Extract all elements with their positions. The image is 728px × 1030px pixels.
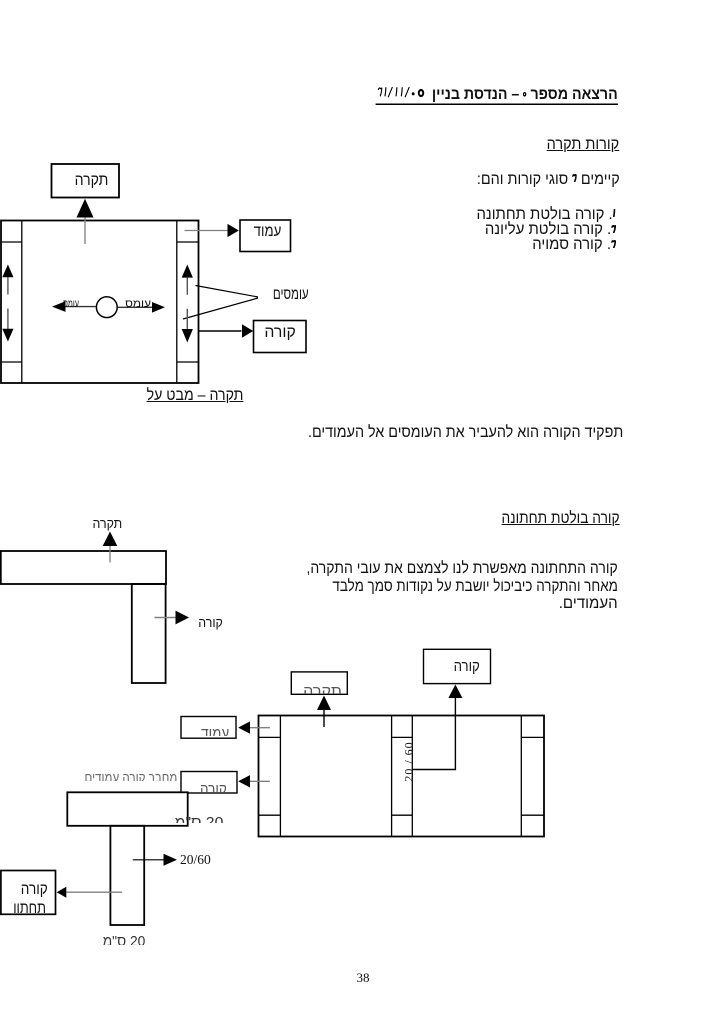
column callout arrow bbox=[250, 727, 270, 729]
right column strip line bbox=[176, 221, 178, 384]
size label arrow bbox=[133, 859, 164, 861]
right strip bottom crossbar bbox=[177, 361, 199, 363]
text omas1 bbox=[126, 298, 152, 311]
clipped text ctak bbox=[202, 673, 342, 694]
text p3 bbox=[559, 595, 618, 613]
plan middle strip line b bbox=[411, 716, 413, 837]
text pkora bbox=[453, 658, 479, 675]
clipped text csm1 bbox=[84, 812, 224, 823]
beam callout box 2 bbox=[181, 772, 237, 794]
plan middle strip line a bbox=[391, 716, 393, 837]
text btak bbox=[74, 172, 108, 190]
ceiling slab plan outline bbox=[1, 221, 199, 384]
text cap bbox=[146, 387, 243, 405]
arrow to column box bbox=[185, 230, 229, 232]
left strip bottom crossbar bbox=[1, 361, 22, 363]
clipped text cnote bbox=[37, 768, 177, 781]
text hdr bbox=[378, 86, 618, 104]
lower-beam section web bbox=[132, 584, 166, 683]
text bamud bbox=[253, 223, 281, 241]
beam callout bent arrow bbox=[412, 697, 455, 770]
column callout box bbox=[181, 717, 236, 739]
text p2 bbox=[332, 578, 617, 596]
right load arrow bbox=[118, 306, 153, 308]
loads pointer line upper bbox=[196, 286, 259, 298]
arrow to ceiling box bbox=[84, 217, 86, 244]
loads pointer line lower bbox=[183, 298, 258, 319]
load circle bbox=[96, 297, 117, 318]
text p1 bbox=[306, 560, 617, 578]
clipped text csm2 bbox=[6, 932, 146, 945]
text sz2060 bbox=[180, 852, 211, 868]
ceiling callout arrow bbox=[323, 710, 325, 727]
plan left strip line bbox=[279, 716, 281, 837]
text it3 bbox=[532, 236, 616, 254]
text it1 bbox=[476, 206, 615, 224]
text kt1 bbox=[20, 881, 47, 899]
arrow to beam label bbox=[155, 617, 177, 619]
right strip top crossbar bbox=[177, 241, 199, 243]
plan crossbars bottom bbox=[259, 814, 281, 816]
arrow from ceiling label bbox=[109, 546, 111, 563]
left slab double arrow bbox=[2, 265, 13, 278]
beam label box bbox=[254, 321, 307, 353]
lower-beam section slab bbox=[1, 551, 166, 584]
clipped text camud bbox=[89, 718, 229, 736]
left strip top crossbar bbox=[1, 241, 22, 243]
ceiling label box bbox=[52, 164, 120, 198]
rotated beam size label bbox=[403, 739, 416, 783]
header underline bbox=[376, 103, 618, 105]
right slab double arrow bbox=[182, 265, 193, 278]
T-section web bbox=[110, 826, 144, 925]
arrow to beam box bbox=[199, 330, 242, 332]
clipped text ktl2 bbox=[0, 900, 46, 913]
lower beam label arrow bbox=[66, 891, 122, 893]
bottom ceiling plan outline bbox=[259, 716, 545, 837]
text omas2 bbox=[64, 298, 80, 311]
beam callout arrow 2 bbox=[250, 780, 270, 782]
text pg bbox=[357, 971, 370, 986]
plan right strip line bbox=[520, 716, 522, 837]
text mid bbox=[308, 424, 623, 442]
lower beam label box bbox=[1, 871, 56, 915]
text bkora bbox=[264, 324, 295, 342]
text omasim bbox=[273, 286, 309, 304]
text ln1 bbox=[477, 171, 620, 189]
text h1 bbox=[546, 136, 619, 154]
text lkora bbox=[198, 616, 223, 631]
left column strip line bbox=[21, 221, 23, 384]
text it2 bbox=[485, 221, 616, 239]
ceiling callout box bbox=[291, 672, 347, 694]
text h2 bbox=[502, 510, 620, 528]
plan crossbars top bbox=[259, 736, 281, 738]
left load arrow bbox=[66, 306, 97, 308]
beam callout box bbox=[424, 649, 491, 683]
clipped text ckora bbox=[86, 773, 226, 793]
column label box bbox=[240, 220, 291, 252]
text ltak bbox=[92, 517, 122, 532]
T-section flange bbox=[67, 792, 187, 826]
